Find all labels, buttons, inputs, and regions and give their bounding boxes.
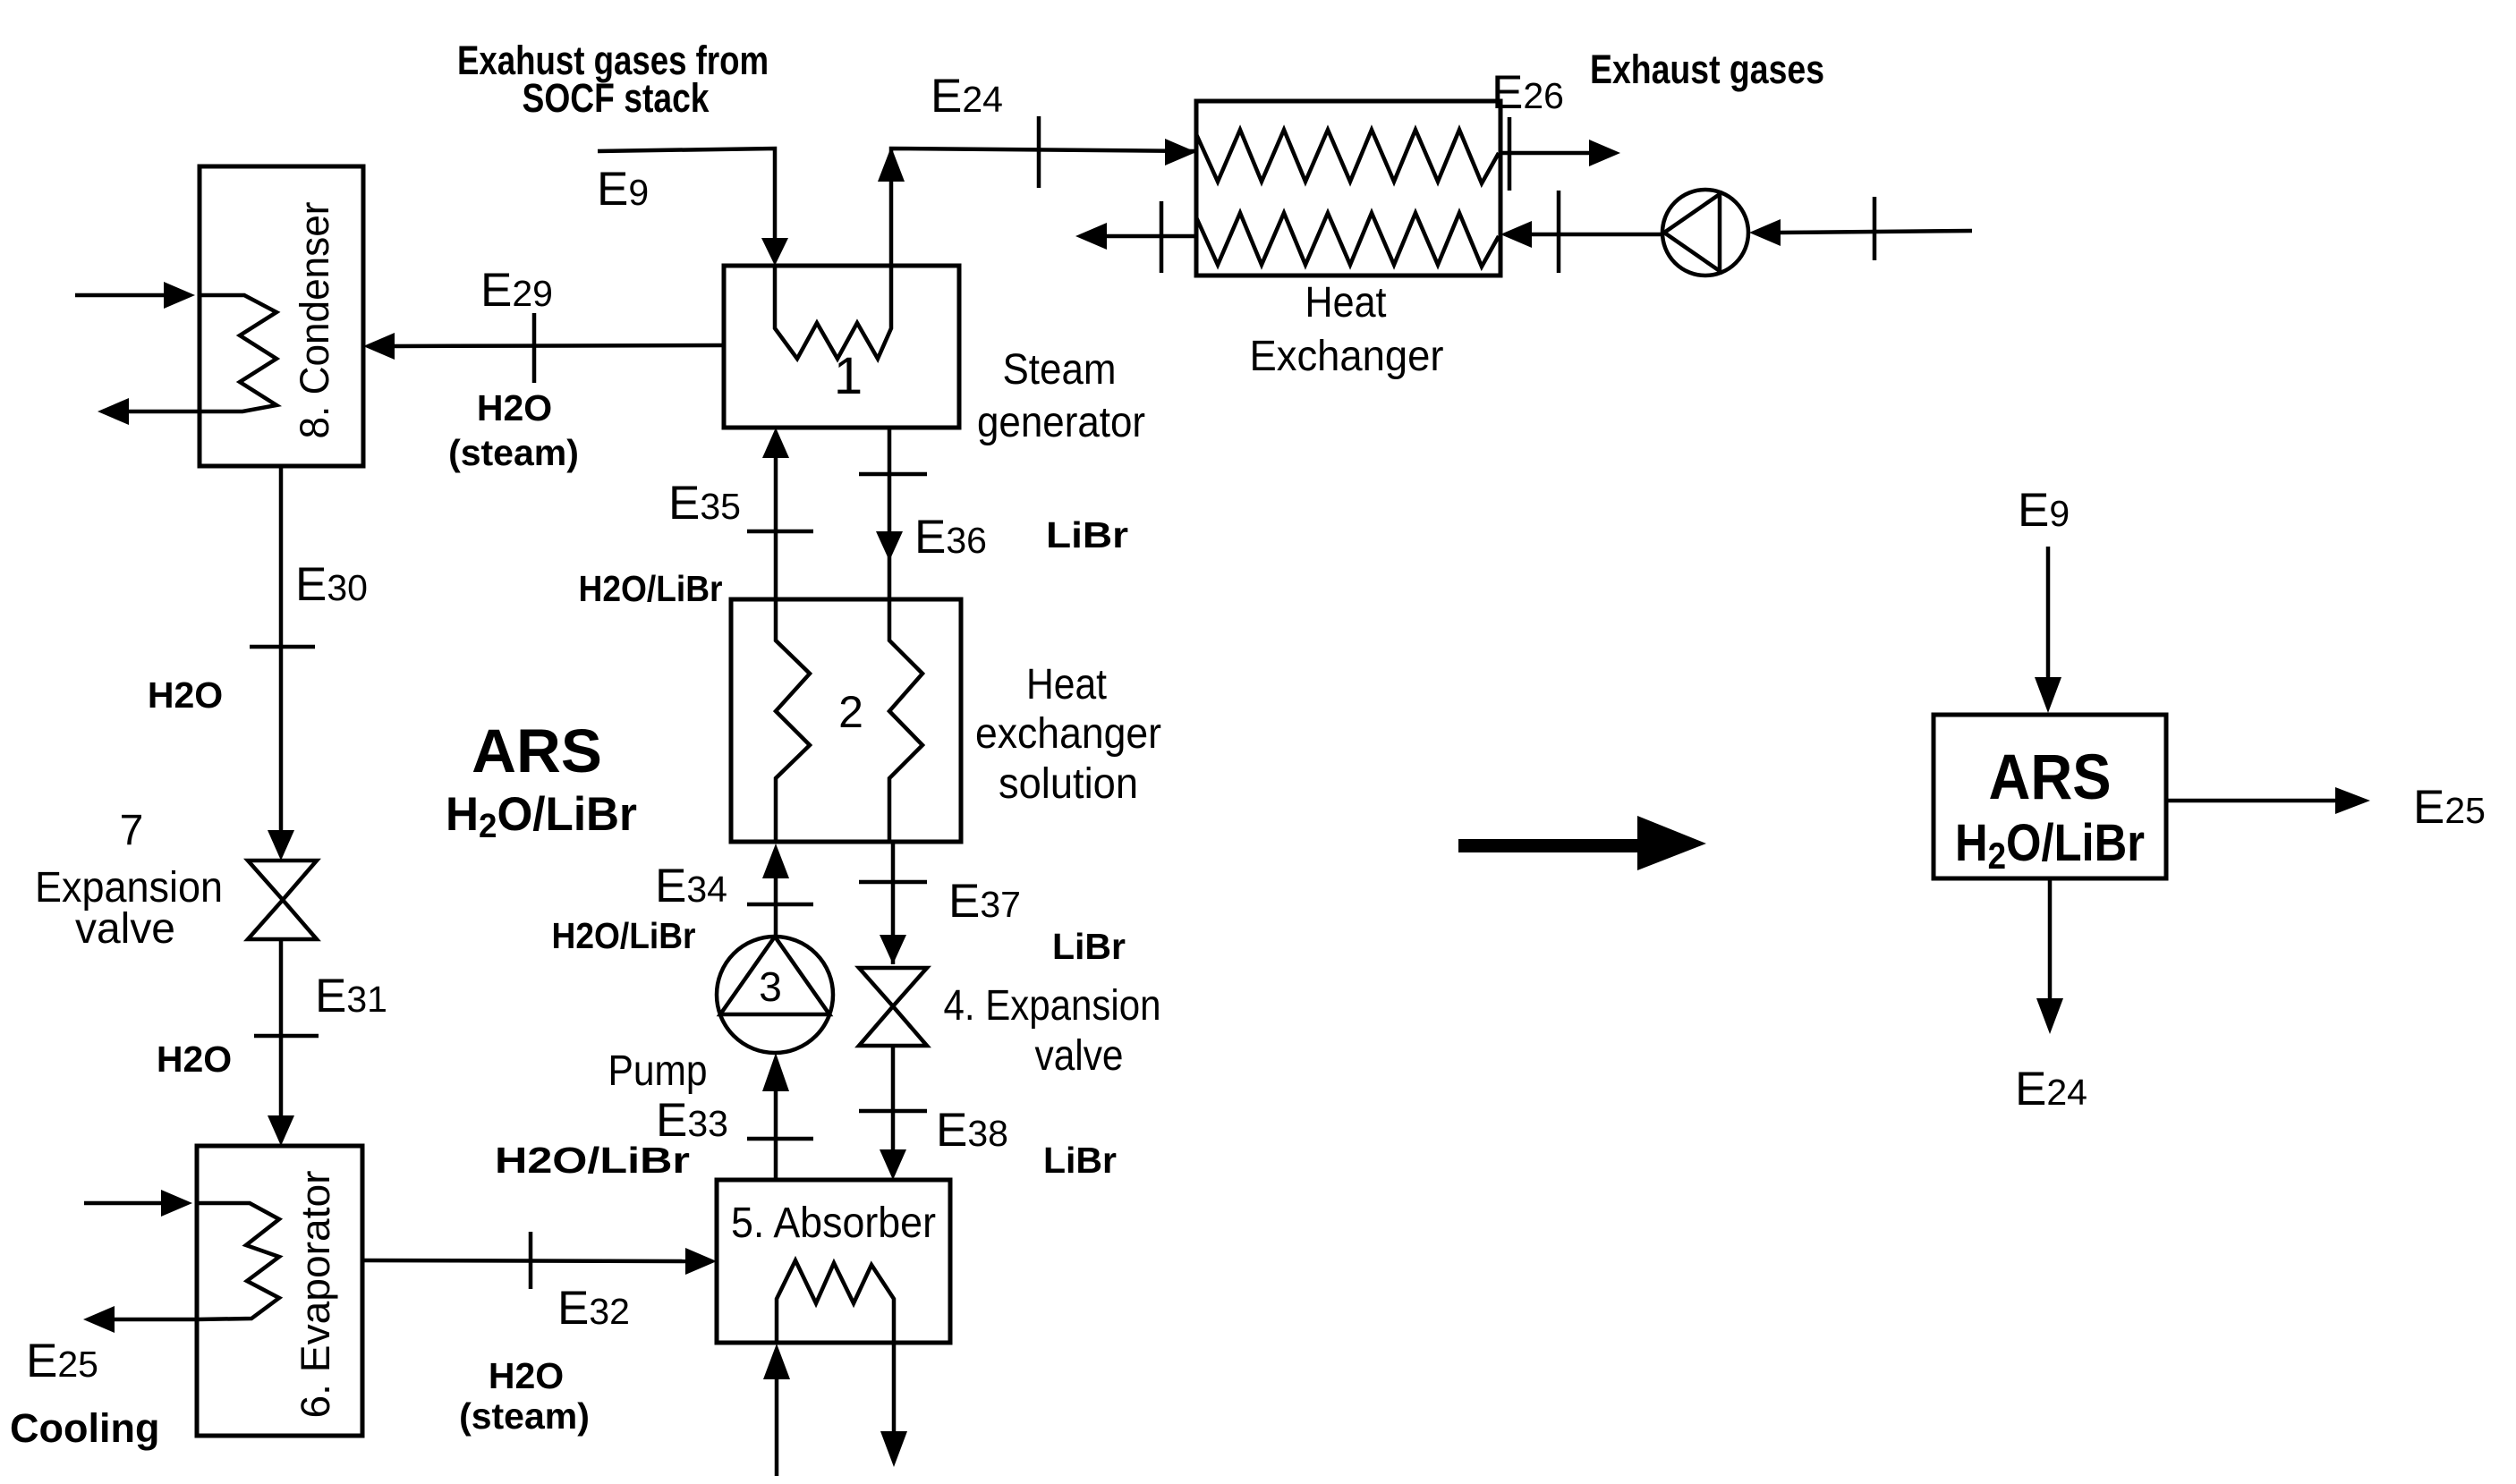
- label 1: [834, 347, 863, 405]
- svg-text:valve: valve: [75, 905, 175, 953]
- label LiBr right of E36: [1046, 514, 1128, 555]
- svg-text:SOCF stack: SOCF stack: [523, 75, 710, 121]
- svg-text:Exhaust gases: Exhaust gases: [1590, 47, 1824, 92]
- wire E25 right out of ARS box: [2166, 787, 2370, 814]
- svg-text:H2O/LiBr: H2O/LiBr: [552, 915, 696, 956]
- absorber drain wire: [880, 1343, 907, 1467]
- wire E24 right out of ARS box: [2036, 878, 2063, 1034]
- heat exchanger solution 2 box: [731, 599, 961, 842]
- heat exchanger HX box: [1196, 101, 1500, 276]
- label H2O/LiBr under E34: [552, 915, 696, 956]
- label ARS system: [446, 717, 637, 845]
- svg-text:H2O/LiBr: H2O/LiBr: [495, 1140, 690, 1181]
- steam generator U1 box: [724, 266, 959, 428]
- node E37 label: [948, 875, 1021, 928]
- svg-text:(steam): (steam): [448, 432, 579, 473]
- node E33 label: [656, 1094, 728, 1147]
- ARS summary box: [1934, 715, 2166, 878]
- label 8. Condenser rotated: [292, 201, 337, 438]
- wire E30 condenser to valve: [250, 466, 315, 861]
- wire return out of heat exchanger left: [1075, 201, 1196, 273]
- wire E9 feed into steam generator: [598, 148, 788, 266]
- svg-text:H2O/LiBr: H2O/LiBr: [1955, 814, 2145, 877]
- svg-text:Steam: Steam: [1003, 346, 1117, 394]
- svg-text:Pump: Pump: [608, 1047, 708, 1095]
- evaporator outlet wire: [83, 1306, 197, 1333]
- svg-text:1: 1: [834, 347, 863, 405]
- node E36 label: [914, 511, 987, 564]
- node E32 label: [557, 1282, 630, 1335]
- heat exchanger bottom coil: [1196, 213, 1499, 267]
- expansion valve 7: [248, 861, 317, 939]
- svg-text:2: 2: [838, 687, 863, 737]
- evaporator inlet wire: [84, 1190, 192, 1217]
- pump 3: [717, 937, 833, 1053]
- evaporator coil: [197, 1203, 279, 1319]
- node E25 right label: [2413, 781, 2486, 834]
- svg-text:generator: generator: [977, 399, 1145, 446]
- svg-text:H2O: H2O: [148, 674, 223, 716]
- label exhaust gases: [1590, 47, 1824, 92]
- node E24 label: [931, 70, 1003, 123]
- label steam generator: [977, 346, 1145, 446]
- label LiBr right of E37: [1052, 926, 1126, 967]
- absorber coil: [777, 1260, 894, 1341]
- label H2O under E31: [157, 1039, 232, 1080]
- svg-text:H2O: H2O: [489, 1355, 564, 1396]
- node E25 label bottom left: [26, 1335, 98, 1387]
- svg-text:Cooling: Cooling: [10, 1405, 159, 1451]
- wire E34 pump to box2: [747, 844, 813, 937]
- svg-text:5. Absorber: 5. Absorber: [731, 1200, 936, 1247]
- svg-text:8. Condenser: 8. Condenser: [292, 201, 337, 438]
- condenser 8 box: [200, 166, 363, 466]
- svg-text:(steam): (steam): [459, 1395, 590, 1437]
- label 6. Evaporator rotated: [293, 1170, 338, 1418]
- pump exhaust circulator: [1662, 190, 1748, 276]
- node E9 label: [597, 163, 649, 216]
- label cooling: [10, 1405, 159, 1451]
- wire E32 evaporator to absorber: [362, 1232, 717, 1289]
- condenser coolant inlet wire: [75, 282, 195, 309]
- wire E37 box2 to valve4: [859, 842, 927, 964]
- wire E24 from generator to heat exchanger: [878, 116, 1196, 266]
- label H2O steam under E32: [459, 1355, 590, 1437]
- svg-text:valve: valve: [1035, 1032, 1124, 1080]
- node E26 label: [1492, 66, 1564, 119]
- absorber feed wire from below: [763, 1344, 790, 1476]
- node E34 label: [655, 860, 727, 912]
- condenser coil: [200, 295, 276, 411]
- svg-text:H2O: H2O: [477, 387, 552, 428]
- wire E29 steam to condenser: [363, 313, 724, 383]
- big transition arrow: [1458, 816, 1706, 870]
- svg-text:LiBr: LiBr: [1043, 1140, 1117, 1181]
- expansion valve 4: [859, 968, 927, 1046]
- svg-text:ARS: ARS: [472, 717, 602, 785]
- label LiBr right of E38: [1043, 1140, 1117, 1181]
- label H2O/LiBr under E35: [579, 568, 723, 609]
- label H2O/LiBr under E33: [495, 1140, 690, 1181]
- heat exchanger top coil: [1196, 130, 1499, 183]
- condenser coolant outlet wire: [98, 398, 200, 425]
- node E29 label: [480, 264, 553, 317]
- label pump: [608, 1047, 708, 1095]
- svg-text:ARS: ARS: [1989, 742, 2112, 813]
- svg-text:exchanger: exchanger: [975, 710, 1161, 758]
- label exhaust gases from SOCF stack: [457, 38, 769, 121]
- svg-text:7: 7: [120, 807, 144, 854]
- box2 left zigzag: [776, 601, 810, 840]
- node E35 label: [668, 477, 741, 530]
- steam generator heating coil: [775, 267, 891, 359]
- wire E26 exhaust out: [1500, 117, 1620, 191]
- label 5. Absorber: [731, 1200, 936, 1247]
- svg-text:H2O/LiBr: H2O/LiBr: [579, 568, 723, 609]
- svg-text:LiBr: LiBr: [1046, 514, 1128, 555]
- node E24 right label: [2015, 1063, 2087, 1115]
- label heat exchanger solution: [975, 661, 1161, 808]
- svg-text:Heat: Heat: [1026, 661, 1107, 708]
- node E30 label: [295, 558, 368, 611]
- svg-text:solution: solution: [999, 760, 1138, 808]
- svg-text:Exchanger: Exchanger: [1250, 333, 1444, 380]
- label 4. expansion valve: [944, 982, 1161, 1080]
- label 3: [759, 963, 782, 1010]
- label H2O steam under E29: [448, 387, 579, 473]
- wire E36 generator to box2: [859, 428, 927, 599]
- svg-text:H2O: H2O: [157, 1039, 232, 1080]
- svg-text:Heat: Heat: [1305, 279, 1387, 326]
- svg-text:3: 3: [759, 963, 782, 1010]
- svg-text:6. Evaporator: 6. Evaporator: [293, 1170, 338, 1418]
- wire E9 right into ARS box: [2035, 547, 2061, 713]
- svg-text:4. Expansion: 4. Expansion: [944, 982, 1161, 1030]
- evaporator 6 box: [197, 1146, 362, 1436]
- wire E33 absorber to pump: [747, 1053, 813, 1180]
- wire return pump to heat exchanger: [1500, 191, 1662, 273]
- absorber 5 box: [717, 1180, 950, 1343]
- node E9 right label: [2018, 484, 2070, 537]
- label 7 expansion valve: [35, 807, 223, 953]
- label heat exchanger: [1250, 279, 1444, 380]
- wire pump inlet: [1749, 197, 1972, 260]
- label 2: [838, 687, 863, 737]
- svg-text:LiBr: LiBr: [1052, 926, 1126, 967]
- wire E35 box2 to generator: [747, 428, 813, 599]
- box2 right zigzag: [889, 601, 922, 840]
- node E38 label: [936, 1104, 1008, 1157]
- wire E31 valve to evaporator: [254, 939, 319, 1146]
- svg-text:H2O/LiBr: H2O/LiBr: [446, 788, 637, 845]
- node E31 label: [315, 970, 387, 1022]
- wire E38 valve4 to absorber: [859, 1046, 927, 1180]
- label H2O under E30: [148, 674, 223, 716]
